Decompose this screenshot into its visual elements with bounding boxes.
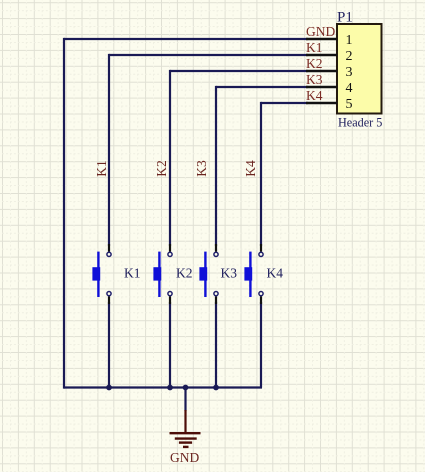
svg-text:4: 4 bbox=[346, 81, 353, 96]
designator K2 (button) bbox=[176, 266, 193, 281]
designator P1 bbox=[337, 9, 353, 25]
wire net K1 top horizontal bbox=[109, 54, 308, 56]
wire button K4 lower vertical to bus bbox=[260, 302, 262, 388]
header P1 pin 1 bbox=[306, 33, 353, 48]
wire net K3 vertical upper (to button K3) bbox=[215, 86, 217, 246]
svg-text:K3: K3 bbox=[306, 72, 323, 87]
svg-text:K3: K3 bbox=[194, 160, 209, 177]
power port GND bar 4 bbox=[183, 446, 189, 448]
pushbutton K2 pin stubs bbox=[169, 244, 171, 304]
svg-text:K1: K1 bbox=[124, 266, 141, 281]
svg-text:GND: GND bbox=[170, 450, 199, 465]
value Header 5 bbox=[338, 116, 382, 130]
svg-text:3: 3 bbox=[346, 65, 353, 80]
svg-text:Header 5: Header 5 bbox=[338, 116, 382, 130]
designator K3 (button) bbox=[221, 266, 238, 281]
power port GND bar 3 bbox=[179, 441, 192, 443]
svg-text:K2: K2 bbox=[154, 160, 169, 177]
svg-text:K1: K1 bbox=[94, 160, 109, 177]
svg-text:K4: K4 bbox=[306, 88, 323, 103]
svg-text:K3: K3 bbox=[221, 266, 238, 281]
junction dot at K2 / bottom bus bbox=[167, 385, 173, 391]
svg-text:P1: P1 bbox=[337, 9, 353, 25]
net label K1 (pin 2) bbox=[306, 40, 323, 55]
wire GND stem (bus to power port) bbox=[184, 388, 186, 412]
header P1 pin 4 bbox=[306, 81, 353, 96]
svg-text:K2: K2 bbox=[176, 266, 193, 281]
net label K3 (pin 4) bbox=[306, 72, 323, 87]
svg-text:K4: K4 bbox=[243, 160, 258, 177]
net label K4 (pin 5) bbox=[306, 88, 323, 103]
svg-text:5: 5 bbox=[346, 97, 353, 112]
designator K4 (button) bbox=[267, 266, 284, 281]
power port GND stem bbox=[184, 410, 186, 433]
wire button K2 lower vertical to bus bbox=[169, 302, 171, 388]
pushbutton K1 actuator bbox=[92, 252, 100, 297]
wire net K2 top horizontal bbox=[170, 70, 308, 72]
svg-text:2: 2 bbox=[346, 49, 353, 64]
wire button K1 lower vertical to bus bbox=[108, 302, 110, 388]
net label K2 (pin 3) bbox=[306, 56, 323, 71]
wire button K3 lower vertical to bus bbox=[215, 302, 217, 388]
junction dot at K1 / bottom bus bbox=[106, 385, 112, 391]
designator K1 (button) bbox=[124, 266, 141, 281]
pushbutton K3 terminal circles bbox=[214, 252, 218, 295]
power port GND bar 1 bbox=[170, 432, 201, 434]
svg-text:GND: GND bbox=[306, 24, 335, 39]
pushbutton K2 terminal circles bbox=[168, 252, 172, 295]
wire net K4 top horizontal bbox=[261, 102, 308, 104]
wire net K1 vertical upper (to button K1) bbox=[108, 54, 110, 246]
wire net GND bottom horizontal bus bbox=[64, 386, 262, 388]
pushbutton K1 terminal circles bbox=[107, 252, 111, 295]
header P1 pin 2 bbox=[306, 49, 353, 64]
power port GND bar 2 bbox=[175, 437, 197, 439]
pushbutton K4 pin stubs bbox=[260, 244, 262, 304]
pushbutton K3 pin stubs bbox=[215, 244, 217, 304]
net label K2 rotated (on wire) bbox=[154, 160, 169, 177]
svg-text:K2: K2 bbox=[306, 56, 323, 71]
pushbutton K4 actuator bbox=[244, 252, 252, 297]
svg-text:K1: K1 bbox=[306, 40, 323, 55]
header P1 pin 5 bbox=[306, 97, 353, 112]
wire net K4 vertical upper (to button K4) bbox=[260, 102, 262, 246]
wire net K3 top horizontal bbox=[216, 86, 308, 88]
header P1 pin 3 bbox=[306, 65, 353, 80]
net label K4 rotated (on wire) bbox=[243, 160, 258, 177]
net label K1 rotated (on wire) bbox=[94, 160, 109, 177]
pushbutton K3 actuator bbox=[199, 252, 207, 297]
svg-text:K4: K4 bbox=[267, 266, 284, 281]
net label GND (pin 1) bbox=[306, 24, 335, 39]
net label K3 rotated (on wire) bbox=[194, 160, 209, 177]
svg-text:1: 1 bbox=[346, 33, 353, 48]
wire net K2 vertical upper (to button K2) bbox=[169, 70, 171, 246]
pushbutton K4 terminal circles bbox=[259, 252, 263, 295]
wire net GND top horizontal (pin 1 to left bus) bbox=[64, 38, 308, 40]
junction dot at K3 / bottom bus bbox=[213, 385, 219, 391]
pushbutton K2 actuator bbox=[153, 252, 161, 297]
junction dot at GND stem / bottom bus bbox=[183, 385, 189, 391]
pushbutton K1 pin stubs bbox=[108, 244, 110, 304]
power port GND text bbox=[170, 450, 199, 465]
wire net GND left vertical bus bbox=[63, 38, 65, 389]
connector P1 body (Header 5) bbox=[337, 24, 382, 114]
